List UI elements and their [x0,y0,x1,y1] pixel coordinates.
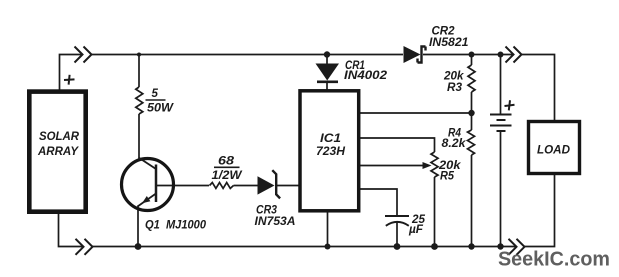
svg-text:LOAD: LOAD [537,145,570,157]
svg-text:ARRAY: ARRAY [37,146,79,158]
svg-text:1/2W: 1/2W [212,170,243,182]
svg-text:CR2: CR2 [432,26,456,38]
svg-text:µF: µF [408,224,424,236]
svg-text:SeekIC.com: SeekIC.com [498,248,610,271]
svg-text:68: 68 [218,156,235,168]
svg-text:R3: R3 [447,82,463,94]
svg-text:723H: 723H [316,146,346,158]
svg-text:Q1 MJ1000: Q1 MJ1000 [145,220,207,232]
svg-text:IC1: IC1 [320,133,341,145]
svg-text:SOLAR: SOLAR [39,131,80,143]
svg-text:IN4002: IN4002 [344,70,388,82]
svg-text:5: 5 [152,88,159,100]
svg-text:R5: R5 [440,171,455,183]
svg-text:50W: 50W [147,103,174,115]
svg-text:CR3: CR3 [256,205,278,217]
svg-text:IN5821: IN5821 [429,37,469,49]
svg-text:20k: 20k [443,71,464,83]
svg-text:8.2k: 8.2k [442,138,467,150]
svg-text:IN753A: IN753A [255,216,296,228]
